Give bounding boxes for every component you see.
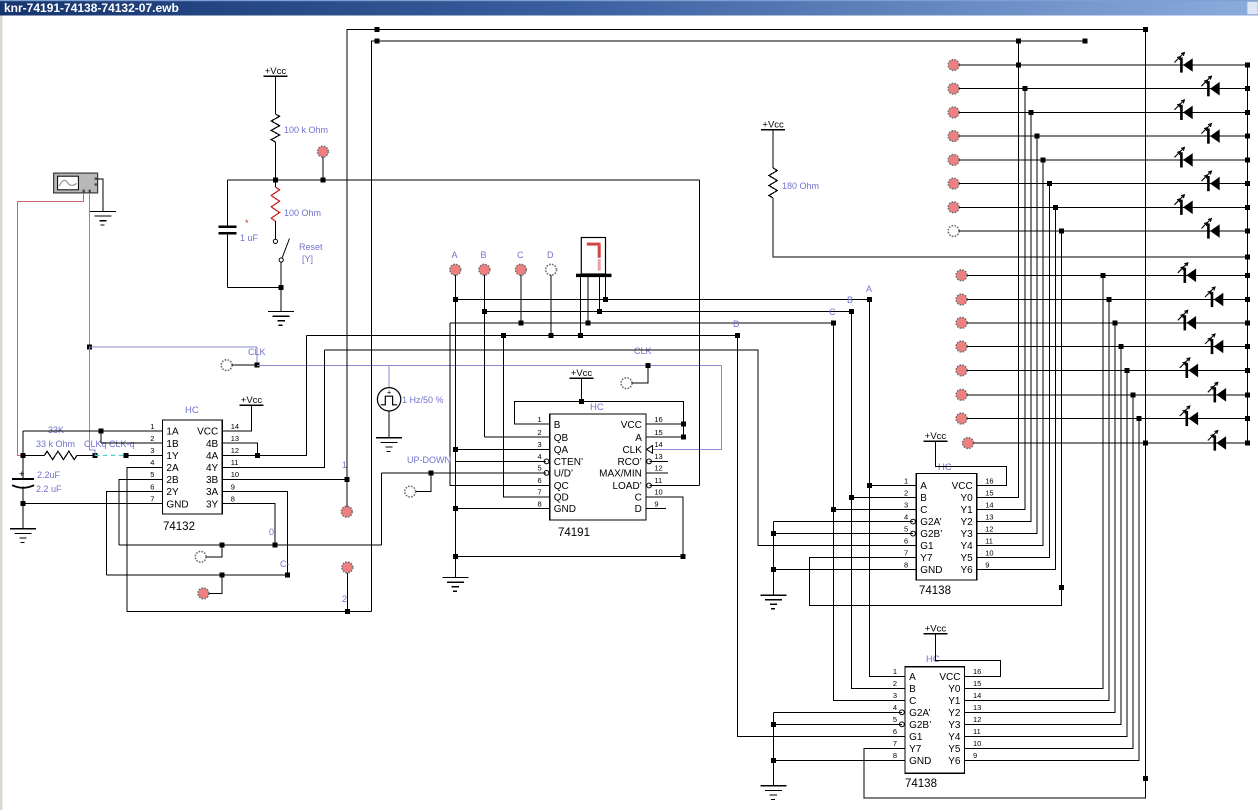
wire Y5 bbox=[977, 184, 1050, 558]
junction bbox=[255, 453, 260, 458]
probe row 10 bbox=[956, 294, 967, 305]
wire LED row 13 bbox=[967, 369, 1247, 371]
svg-text:11: 11 bbox=[231, 458, 239, 467]
wire Y2 (lower) bbox=[965, 323, 1116, 713]
bus wire C y323.2 bbox=[450, 322, 834, 324]
svg-text:2: 2 bbox=[893, 679, 897, 688]
svg-text:U/D’: U/D’ bbox=[554, 469, 573, 480]
wire ground stem bbox=[22, 504, 24, 529]
wire LED row 10 bbox=[967, 299, 1247, 301]
wire RC node vertical bbox=[22, 431, 24, 455]
junction bbox=[1245, 181, 1250, 186]
IC U4 74138 (decoder, lower) bbox=[905, 667, 964, 774]
wire LED row 12 bbox=[967, 346, 1247, 348]
wire C bus down bbox=[834, 323, 906, 700]
IC U2 74191 (up/down counter) bbox=[550, 414, 646, 520]
junction bbox=[1125, 368, 1130, 373]
junction bbox=[1245, 86, 1250, 91]
resistor R1 100k Ohm bbox=[271, 114, 279, 142]
wire Y3 bbox=[977, 136, 1037, 533]
wire bbox=[228, 287, 282, 289]
junction bbox=[99, 429, 104, 434]
wire G2A pin bbox=[773, 521, 913, 523]
svg-text:Y3: Y3 bbox=[948, 720, 961, 731]
wire bbox=[936, 441, 1007, 485]
wire 7seg pin D bbox=[580, 277, 582, 335]
svg-text:RCO’: RCO’ bbox=[617, 457, 641, 468]
wire Y0 (lower) bbox=[965, 275, 1103, 688]
svg-text:180 Ohm: 180 Ohm bbox=[782, 181, 819, 191]
wire 3A bbox=[222, 492, 287, 576]
wire LED row 16 bbox=[974, 442, 1248, 444]
junction bbox=[1028, 110, 1033, 115]
probe row 9 bbox=[956, 270, 967, 281]
svg-text:1B: 1B bbox=[166, 439, 179, 450]
probe row 5 bbox=[948, 155, 959, 166]
wire MAX/MIN stub bbox=[646, 472, 668, 474]
junction bbox=[501, 333, 506, 338]
svg-text:VCC: VCC bbox=[197, 427, 218, 438]
svg-text:Y1: Y1 bbox=[960, 505, 973, 516]
LED D11 bbox=[1184, 315, 1187, 330]
svg-text:1: 1 bbox=[893, 667, 897, 676]
svg-text:5: 5 bbox=[904, 524, 908, 533]
svg-text:Y3: Y3 bbox=[960, 529, 973, 540]
svg-text:+Vcc: +Vcc bbox=[925, 431, 947, 442]
wire ground stem bbox=[280, 288, 282, 312]
wire node line y180 bbox=[228, 179, 700, 181]
wire QA pin bbox=[455, 448, 549, 450]
svg-text:A: A bbox=[920, 481, 927, 492]
svg-text:5: 5 bbox=[150, 470, 154, 479]
switch Reset [Y] bbox=[273, 239, 277, 243]
svg-text:GND: GND bbox=[166, 499, 188, 510]
wire 3Y bbox=[222, 504, 275, 545]
wire CLK blue bbox=[256, 347, 258, 365]
wire QB vertical bbox=[483, 312, 485, 438]
ground (lower 74138) bbox=[760, 785, 786, 787]
bus wire D y335.3 bbox=[307, 334, 738, 336]
wire GND row bbox=[23, 503, 162, 505]
wire RCO stub bbox=[649, 460, 668, 462]
ground (RC) bbox=[10, 528, 36, 530]
svg-text:4A: 4A bbox=[206, 451, 219, 462]
junction bbox=[1035, 134, 1040, 139]
svg-text:B: B bbox=[920, 493, 927, 504]
svg-text:13: 13 bbox=[973, 703, 981, 712]
wire B bus down bbox=[851, 312, 905, 689]
wire 1A/1B input bbox=[23, 430, 101, 432]
probe red (575 row) bbox=[198, 588, 209, 599]
junction bbox=[645, 363, 650, 368]
svg-text:VCC: VCC bbox=[952, 481, 973, 492]
junction bbox=[1245, 255, 1250, 260]
junction bbox=[1245, 441, 1250, 446]
probe row 13 bbox=[956, 365, 967, 376]
probe row 11 bbox=[956, 317, 967, 328]
svg-text:9: 9 bbox=[973, 751, 977, 760]
probe row 12 bbox=[956, 341, 967, 352]
wire bbox=[274, 221, 276, 239]
junction bbox=[1016, 63, 1021, 68]
junction bbox=[1245, 110, 1250, 115]
svg-text:16: 16 bbox=[985, 476, 993, 485]
LED D3 bbox=[1180, 105, 1183, 120]
svg-text:+Vcc: +Vcc bbox=[241, 395, 263, 406]
junction bbox=[831, 321, 836, 326]
wire Y1 (lower) bbox=[965, 300, 1109, 701]
probe row 8 bbox=[948, 226, 959, 237]
svg-text:7: 7 bbox=[150, 494, 154, 503]
svg-text:12: 12 bbox=[973, 715, 981, 724]
svg-text:12: 12 bbox=[231, 446, 239, 455]
ground (74191) bbox=[442, 577, 468, 579]
svg-text:GND: GND bbox=[554, 504, 576, 515]
resistor R3 33k Ohm bbox=[23, 454, 44, 456]
wire bbox=[483, 275, 485, 311]
wire Y0 bbox=[977, 41, 1019, 498]
svg-text:2.2uF: 2.2uF bbox=[37, 470, 61, 480]
wire 2Y out bbox=[107, 492, 163, 576]
svg-text:0: 0 bbox=[269, 527, 274, 537]
svg-text:4B: 4B bbox=[206, 439, 219, 450]
svg-text:5: 5 bbox=[893, 715, 897, 724]
LED D7 bbox=[1180, 200, 1183, 215]
svg-text:+Vcc: +Vcc bbox=[925, 624, 947, 635]
junction bbox=[681, 435, 686, 440]
IC U3 74138 (decoder, upper) bbox=[916, 473, 977, 580]
svg-text:6: 6 bbox=[904, 536, 908, 545]
wire probe2 stem bbox=[346, 573, 348, 612]
junction bbox=[482, 309, 487, 314]
wire 7seg pin A bbox=[604, 277, 606, 299]
svg-text:14: 14 bbox=[654, 440, 662, 449]
probe row 15 bbox=[956, 413, 967, 424]
wire scope channel B (blue) bbox=[89, 193, 91, 347]
svg-text:1Y: 1Y bbox=[166, 451, 179, 462]
junction bbox=[375, 27, 380, 32]
wire Y4 (lower) bbox=[965, 370, 1128, 736]
clock triangle CLK pin bbox=[647, 446, 653, 454]
junction bbox=[21, 501, 26, 506]
svg-text:16: 16 bbox=[654, 415, 662, 424]
svg-text:1: 1 bbox=[904, 476, 908, 485]
wire G2B pin (lower) bbox=[773, 723, 902, 725]
junction bbox=[279, 285, 284, 290]
LED D14 bbox=[1214, 387, 1217, 402]
svg-text:16: 16 bbox=[973, 667, 981, 676]
junction bbox=[1245, 416, 1250, 421]
LED D10 bbox=[1211, 292, 1214, 307]
LED D1 bbox=[1180, 57, 1183, 72]
wire G2A/G2B tie (lower) bbox=[772, 712, 774, 786]
svg-text:QA: QA bbox=[554, 445, 569, 456]
svg-text:B: B bbox=[481, 250, 487, 260]
svg-text:4: 4 bbox=[893, 703, 897, 712]
svg-text:1: 1 bbox=[150, 422, 154, 431]
svg-text:3: 3 bbox=[538, 440, 542, 449]
svg-text:+: + bbox=[19, 469, 25, 480]
ground (scope) bbox=[90, 210, 116, 212]
bus wire B y311.5 bbox=[484, 311, 851, 313]
junction bbox=[1143, 776, 1148, 781]
svg-text:3B: 3B bbox=[206, 475, 219, 486]
junction bbox=[1113, 320, 1118, 325]
junction bbox=[1119, 344, 1124, 349]
wire D bus down to G1 bbox=[738, 335, 906, 736]
svg-text:100 k Ohm: 100 k Ohm bbox=[284, 125, 328, 135]
svg-text:HC: HC bbox=[185, 405, 199, 416]
svg-text:Y0: Y0 bbox=[948, 684, 961, 695]
svg-text:4: 4 bbox=[904, 512, 908, 521]
svg-text:C: C bbox=[635, 493, 642, 504]
svg-text:15: 15 bbox=[985, 488, 993, 497]
junction bbox=[1245, 320, 1250, 325]
junction bbox=[1245, 134, 1250, 139]
LED D15 bbox=[1186, 411, 1189, 426]
svg-text:3: 3 bbox=[904, 500, 908, 509]
wire bbox=[550, 275, 552, 335]
wire top feedback y40.9 bbox=[371, 41, 1084, 612]
svg-text:3: 3 bbox=[893, 691, 897, 700]
junction bbox=[1047, 181, 1052, 186]
junction bbox=[21, 453, 26, 458]
wire LED row 8 bbox=[959, 230, 1247, 232]
junction bbox=[1245, 392, 1250, 397]
ground (clock source) bbox=[376, 437, 402, 439]
svg-text:Y2: Y2 bbox=[960, 517, 973, 528]
svg-text:GND: GND bbox=[920, 565, 942, 576]
wire bbox=[206, 545, 222, 557]
svg-text:4: 4 bbox=[538, 452, 542, 461]
svg-text:9: 9 bbox=[231, 482, 235, 491]
wire net row y575 bbox=[107, 574, 288, 576]
wire 1A-1B tie bbox=[100, 431, 102, 443]
wire ground stem (74191) bbox=[454, 509, 456, 578]
svg-text:VCC: VCC bbox=[939, 672, 960, 683]
svg-text:+Vcc: +Vcc bbox=[762, 120, 784, 131]
svg-text:UP-DOWN: UP-DOWN bbox=[407, 455, 451, 465]
junction bbox=[1245, 273, 1250, 278]
wire bbox=[274, 142, 276, 180]
svg-text:15: 15 bbox=[973, 679, 981, 688]
wire Y7 route (lower) bbox=[864, 30, 1146, 798]
svg-text:8: 8 bbox=[231, 494, 235, 503]
wire C pin bbox=[834, 509, 917, 511]
LED D8 bbox=[1207, 223, 1210, 238]
wire G2B pin bbox=[773, 533, 913, 535]
probe white CLK2 bbox=[621, 378, 632, 389]
svg-text:GND: GND bbox=[909, 756, 931, 767]
wire bbox=[209, 575, 222, 593]
svg-text:2: 2 bbox=[904, 488, 908, 497]
IC U1 74132 (quad schmitt NAND) bbox=[162, 420, 222, 514]
junction bbox=[771, 531, 776, 536]
wire LED row 5 bbox=[959, 159, 1247, 161]
wire bbox=[935, 634, 1000, 677]
svg-text:2: 2 bbox=[342, 594, 347, 604]
svg-text:4: 4 bbox=[150, 458, 154, 467]
wire 2A feedback bbox=[127, 467, 162, 611]
svg-text:11: 11 bbox=[985, 536, 993, 545]
probe row 14 bbox=[956, 389, 967, 400]
7-segment connector bar bbox=[576, 274, 612, 277]
svg-text:Y4: Y4 bbox=[960, 541, 973, 552]
svg-text:1: 1 bbox=[342, 460, 347, 470]
svg-text:74138: 74138 bbox=[919, 585, 951, 597]
svg-text:7: 7 bbox=[904, 548, 908, 557]
junction bbox=[1131, 392, 1136, 397]
wire Y4 bbox=[977, 160, 1043, 546]
wire bbox=[416, 473, 431, 491]
wire LED row 9 bbox=[967, 274, 1247, 276]
svg-text:Y7: Y7 bbox=[920, 553, 933, 564]
probe red C bbox=[516, 264, 527, 275]
wire G2A/G2B tie bbox=[772, 522, 774, 596]
svg-text:33K: 33K bbox=[48, 425, 64, 435]
wire net row y611 bbox=[127, 611, 371, 613]
wire bbox=[520, 275, 522, 323]
wire B pin bbox=[851, 497, 916, 499]
svg-text:B: B bbox=[554, 420, 561, 431]
svg-text:*: * bbox=[245, 218, 249, 228]
svg-text:10: 10 bbox=[985, 548, 993, 557]
wire LED row 7 bbox=[959, 206, 1247, 208]
svg-text:D: D bbox=[733, 319, 740, 329]
svg-text:Y5: Y5 bbox=[948, 744, 961, 755]
wire cyan dashed bbox=[95, 454, 126, 456]
wire Y3 (lower) bbox=[965, 347, 1122, 725]
wire bbox=[280, 262, 282, 288]
svg-text:Y2: Y2 bbox=[948, 708, 961, 719]
wire VCC pin16 bbox=[646, 423, 684, 425]
junction bbox=[1059, 585, 1064, 590]
svg-text:+: + bbox=[387, 387, 392, 396]
wire CTEN pin bbox=[455, 460, 546, 462]
wire gating row y350 bbox=[324, 350, 916, 546]
svg-text:2B: 2B bbox=[166, 475, 179, 486]
wire A pin bbox=[870, 485, 917, 487]
svg-text:A: A bbox=[635, 433, 642, 444]
wire LED row 2 bbox=[959, 88, 1247, 90]
wire C pin10 bbox=[646, 497, 683, 556]
wire 4Y to gating row bbox=[222, 350, 324, 468]
capacitor C1 1uF bbox=[227, 180, 229, 226]
probe red A bbox=[450, 264, 461, 275]
svg-text:Y7: Y7 bbox=[909, 744, 922, 755]
wire CLK blue to source bbox=[388, 366, 390, 388]
svg-text:G2B’: G2B’ bbox=[909, 720, 931, 731]
svg-text:[Y]: [Y] bbox=[302, 254, 313, 264]
junction bbox=[518, 321, 523, 326]
probe row 2 bbox=[948, 83, 959, 94]
svg-text:QD: QD bbox=[554, 493, 569, 504]
resistor R4 180 Ohm bbox=[769, 168, 777, 198]
wire CLK blue main bbox=[257, 365, 721, 367]
oscilloscope XSC1 bbox=[54, 173, 98, 193]
wire U/D pin bbox=[382, 472, 547, 474]
wire Y1 bbox=[977, 89, 1025, 510]
wire LED row 14 bbox=[967, 394, 1247, 396]
svg-text:CLKq CLK-q: CLKq CLK-q bbox=[84, 439, 135, 449]
svg-text:C: C bbox=[829, 307, 836, 317]
svg-text:Reset: Reset bbox=[299, 242, 323, 252]
svg-text:A: A bbox=[866, 284, 872, 294]
svg-text:VCC: VCC bbox=[621, 420, 642, 431]
svg-text:CLK: CLK bbox=[622, 445, 642, 456]
wire Y6 (lower) bbox=[965, 419, 1140, 761]
wire LED row 3 bbox=[959, 111, 1247, 113]
probe row 3 bbox=[948, 107, 959, 118]
wire GND pin (lower 74138) bbox=[773, 759, 905, 761]
svg-text:11: 11 bbox=[654, 476, 662, 485]
junction bbox=[1245, 63, 1250, 68]
svg-text:C-: C- bbox=[280, 559, 290, 569]
junction bbox=[272, 543, 277, 548]
svg-text:6: 6 bbox=[893, 727, 897, 736]
svg-text:MAX/MIN: MAX/MIN bbox=[599, 469, 642, 480]
svg-text:CLK: CLK bbox=[634, 346, 652, 356]
wire LED supply rail bbox=[773, 198, 1247, 257]
clock source V1 1Hz bbox=[377, 388, 400, 411]
svg-text:G2A’: G2A’ bbox=[920, 517, 942, 528]
wire 7seg pin B bbox=[599, 277, 601, 311]
probe white D bbox=[546, 264, 557, 275]
7-segment display bbox=[581, 238, 605, 275]
svg-text:14: 14 bbox=[231, 422, 239, 431]
junction bbox=[681, 422, 686, 427]
probe red (reset node) bbox=[318, 146, 329, 157]
probe row 16 bbox=[963, 438, 974, 449]
probe red B bbox=[479, 264, 490, 275]
svg-text:15: 15 bbox=[654, 428, 662, 437]
svg-text:Y6: Y6 bbox=[948, 756, 961, 767]
svg-text:74191: 74191 bbox=[558, 527, 590, 539]
svg-text:Y4: Y4 bbox=[948, 732, 961, 743]
svg-text:C: C bbox=[517, 250, 524, 260]
svg-text:G1: G1 bbox=[909, 732, 923, 743]
resistor R2 100 Ohm (red) bbox=[274, 180, 276, 187]
wire bbox=[274, 76, 276, 114]
svg-text:5: 5 bbox=[538, 464, 542, 473]
svg-text:G1: G1 bbox=[920, 541, 934, 552]
junction bbox=[453, 554, 458, 559]
svg-text:C: C bbox=[920, 505, 927, 516]
title bar bbox=[0, 0, 1258, 16]
svg-text:14: 14 bbox=[973, 691, 981, 700]
probe row 1 bbox=[948, 60, 959, 71]
svg-text:9: 9 bbox=[654, 499, 658, 508]
wire QD vertical bbox=[504, 335, 550, 497]
LED D9 bbox=[1184, 268, 1187, 283]
svg-text:CTEN’: CTEN’ bbox=[554, 457, 583, 468]
wire Y2 bbox=[977, 112, 1031, 521]
svg-text:B: B bbox=[847, 295, 853, 305]
LED D13 bbox=[1186, 363, 1189, 378]
probe white (545 row) bbox=[195, 551, 206, 562]
svg-text:9: 9 bbox=[985, 560, 989, 569]
wire LED row 15 bbox=[967, 418, 1247, 420]
svg-text:2A: 2A bbox=[166, 463, 179, 474]
wire LED row 11 bbox=[967, 322, 1247, 324]
junction bbox=[1041, 157, 1046, 162]
probe row 7 bbox=[948, 202, 959, 213]
wire B pin loop bbox=[514, 402, 683, 438]
wire G2A pin (lower) bbox=[773, 711, 902, 713]
wire LED row 1 bbox=[959, 64, 1247, 66]
wire LED row 6 bbox=[959, 183, 1247, 185]
wire 4B bbox=[222, 443, 258, 455]
